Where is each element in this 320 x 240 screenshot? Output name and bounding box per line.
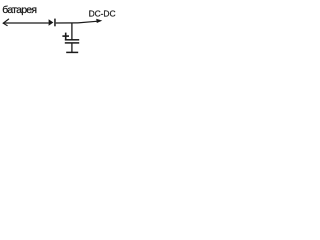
- wire junction to DC-DC with arrow: [78, 21, 98, 23]
- capacitor C1 bottom plate: [65, 42, 79, 44]
- svg-text:батарея: батарея: [2, 4, 36, 16]
- left arrowhead toward battery: [3, 19, 8, 26]
- wire diode to junction: [56, 22, 78, 24]
- ground bar: [66, 51, 78, 53]
- wire battery to diode: [3, 22, 48, 24]
- wire capacitor down to bottom bar: [71, 44, 73, 53]
- node DC-DC label: [89, 8, 116, 18]
- diode D1: [49, 19, 56, 27]
- plus polarity mark: [62, 33, 69, 40]
- wire junction down to capacitor: [71, 23, 73, 40]
- node battery label: [2, 4, 36, 16]
- svg-text:DC-DC: DC-DC: [89, 8, 116, 18]
- right arrowhead toward DC-DC: [96, 19, 102, 23]
- capacitor C1 top plate: [65, 39, 79, 41]
